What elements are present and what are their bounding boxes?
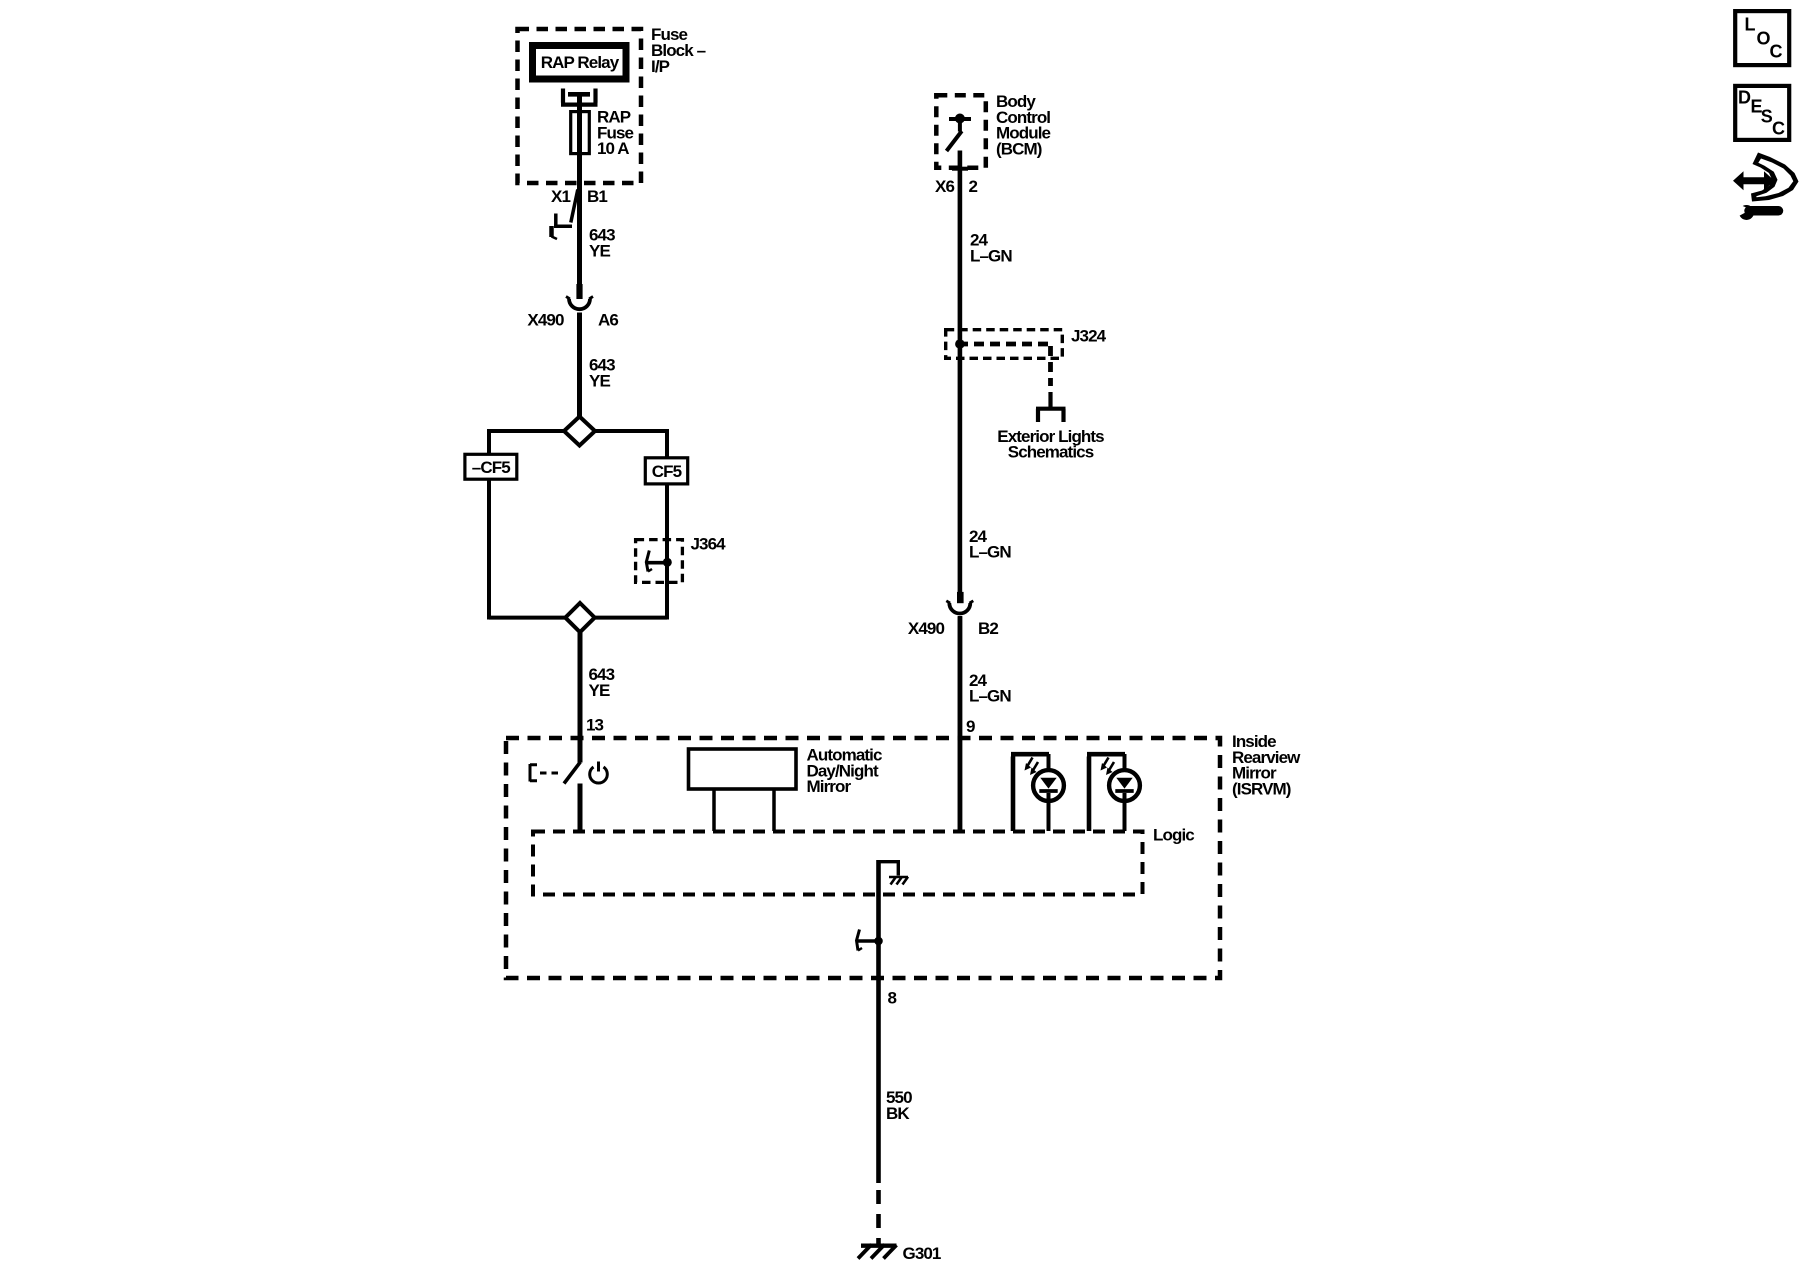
junction J324 dashed box xyxy=(946,330,1063,359)
wire: left branch -CF5 down to lower splice xyxy=(487,478,491,620)
svg-text:C: C xyxy=(1772,119,1785,139)
svg-text:YE: YE xyxy=(589,681,610,700)
label: RAP Relay xyxy=(541,53,620,72)
wire: right branch down to CF5 xyxy=(665,429,669,458)
svg-text:J364: J364 xyxy=(691,535,727,554)
dashed wire to G301 xyxy=(876,1190,881,1245)
mirror legs xyxy=(714,789,774,831)
internal chassis ground hatches xyxy=(889,876,908,879)
clip symbol at X1/B1 xyxy=(571,190,578,223)
service icon: outline arrow xyxy=(1751,153,1799,202)
svg-text:B1: B1 xyxy=(587,187,607,206)
wire label 643 YE (lower) xyxy=(589,665,615,700)
svg-text:YE: YE xyxy=(589,371,610,390)
wire: B2 down into ISRVM logic xyxy=(958,617,963,832)
svg-text:B2: B2 xyxy=(978,619,998,638)
svg-text:X1: X1 xyxy=(551,187,570,206)
ground G301 symbol xyxy=(861,1243,897,1247)
svg-text:Schematics: Schematics xyxy=(1008,443,1094,462)
label: RAP Fuse 10 A xyxy=(597,108,634,159)
wire: switch to logic box xyxy=(578,784,583,832)
pin label 13 xyxy=(586,716,604,735)
label Logic xyxy=(1153,826,1194,845)
BCM switch node dot xyxy=(955,114,965,124)
svg-text:10 A: 10 A xyxy=(597,139,629,158)
fuse F: RAP Fuse 10 A symbol xyxy=(568,92,590,97)
label G301 xyxy=(903,1244,941,1263)
svg-text:9: 9 xyxy=(966,717,975,736)
photodiode D1 xyxy=(1011,754,1064,831)
connector X490 pin A6 symbol xyxy=(576,284,582,299)
svg-text:X490: X490 xyxy=(527,311,564,330)
svg-text:C: C xyxy=(1770,42,1783,62)
wire: ground wire down from logic xyxy=(876,860,881,1183)
labels X490 A6 xyxy=(527,311,618,330)
clip symbol inside J364 xyxy=(646,561,668,565)
svg-text:J324: J324 xyxy=(1071,327,1107,346)
junction dot at J324 xyxy=(955,339,965,349)
clip symbol at ground junction xyxy=(857,939,879,942)
wire: lower horizontal splice run xyxy=(489,616,667,620)
svg-text:–CF5: –CF5 xyxy=(472,458,510,477)
off-page fork symbol xyxy=(1048,392,1052,409)
svg-text:A6: A6 xyxy=(598,311,618,330)
wire label 550 BK xyxy=(886,1088,912,1123)
wire: left branch down to -CF5 xyxy=(487,429,491,454)
ISRVM dashed box (Inside Rearview Mirror) xyxy=(506,738,1220,978)
label: Inside Rearview Mirror (ISRVM) xyxy=(1232,732,1301,798)
junction J364 dashed box xyxy=(636,540,683,583)
label J364 xyxy=(691,535,727,554)
svg-text:BK: BK xyxy=(886,1104,910,1123)
service icon: double arrow xyxy=(1733,171,1775,190)
wire: A6 down to upper splice diamond xyxy=(577,313,582,418)
svg-text:X490: X490 xyxy=(908,619,945,638)
svg-text:(BCM): (BCM) xyxy=(996,139,1042,158)
power switch dashed link xyxy=(540,772,563,775)
svg-text:O: O xyxy=(1757,29,1771,49)
photodiode D2 xyxy=(1087,754,1140,831)
svg-text:Logic: Logic xyxy=(1153,826,1194,845)
label: Automatic Day/Night Mirror xyxy=(807,746,882,797)
connector X490 pin B2 symbol xyxy=(957,592,964,603)
relay socket bracket xyxy=(561,89,598,105)
power switch bracket contact xyxy=(530,764,537,782)
power symbol icon xyxy=(590,767,608,783)
svg-text:CF5: CF5 xyxy=(652,462,682,481)
svg-text:8: 8 xyxy=(888,989,897,1008)
pin label 9 xyxy=(966,717,975,736)
DESC icon box xyxy=(1735,86,1789,140)
power switch blade xyxy=(564,762,580,784)
wire label 643 YE (mid) xyxy=(589,356,615,391)
connector box -CF5 xyxy=(465,454,517,479)
wire label 24 L-GN (mid) xyxy=(969,527,1011,561)
svg-text:D: D xyxy=(1738,88,1751,108)
wire: relay through fuse down to connector X490 A6 xyxy=(577,92,582,299)
wire: lower splice down to ISRVM switch xyxy=(578,632,583,763)
LOC icon box xyxy=(1735,11,1789,65)
svg-text:(ISRVM): (ISRVM) xyxy=(1232,779,1291,798)
wire: upper horizontal splice run xyxy=(489,429,667,433)
logic dashed box xyxy=(533,832,1143,895)
splice diamond (upper) xyxy=(564,417,595,446)
svg-text:X6: X6 xyxy=(935,177,954,196)
svg-text:RAP Relay: RAP Relay xyxy=(541,53,620,72)
BCM dashed box (Body Control Module) xyxy=(936,95,986,168)
labels X490 B2 xyxy=(908,619,998,638)
wire label 24 L-GN (upper) xyxy=(970,231,1012,266)
wire: pin 9 into logic xyxy=(958,616,963,831)
pin label 8 xyxy=(888,989,897,1008)
wire: BCM output down to X490 B2 xyxy=(958,151,963,593)
svg-text:G301: G301 xyxy=(903,1244,941,1263)
svg-text:L: L xyxy=(1745,15,1756,35)
wire: right branch CF5 down through J364 to lower splice xyxy=(665,483,669,620)
svg-text:S: S xyxy=(1761,107,1773,127)
svg-text:2: 2 xyxy=(969,177,978,196)
svg-text:13: 13 xyxy=(586,716,604,735)
BCM switch contact bar xyxy=(949,117,971,121)
relay: RAP Relay box xyxy=(533,46,627,80)
dashed branch wire inside J324 xyxy=(958,342,1051,347)
service icon: wrench xyxy=(1739,205,1754,220)
wire label 643 YE (upper) xyxy=(589,226,615,261)
pin labels X6 2 xyxy=(935,177,978,196)
label: Body Control Module (BCM) xyxy=(996,92,1051,158)
splice diamond (lower) xyxy=(565,603,594,632)
svg-text:L–GN: L–GN xyxy=(969,687,1011,706)
automatic day/night mirror box xyxy=(689,749,797,789)
label J324 xyxy=(1071,327,1107,346)
pin labels X1 B1 xyxy=(551,187,607,206)
fuse block dashed box (Fuse Block - I/P) xyxy=(518,29,642,183)
label: Fuse Block - I/P xyxy=(651,25,706,76)
connector box CF5 xyxy=(645,458,687,484)
svg-text:I/P: I/P xyxy=(651,57,670,76)
label: Exterior Lights Schematics xyxy=(997,427,1104,462)
internal ground bend xyxy=(879,862,899,876)
svg-text:YE: YE xyxy=(589,241,610,260)
svg-text:Mirror: Mirror xyxy=(807,777,852,796)
pin tick at BCM box edge xyxy=(952,167,968,171)
svg-text:L–GN: L–GN xyxy=(969,542,1011,561)
BCM switch stub xyxy=(958,119,962,132)
wire label 24 L-GN (lower) xyxy=(969,671,1011,706)
BCM switch blade xyxy=(947,131,962,151)
svg-text:L–GN: L–GN xyxy=(970,246,1012,265)
